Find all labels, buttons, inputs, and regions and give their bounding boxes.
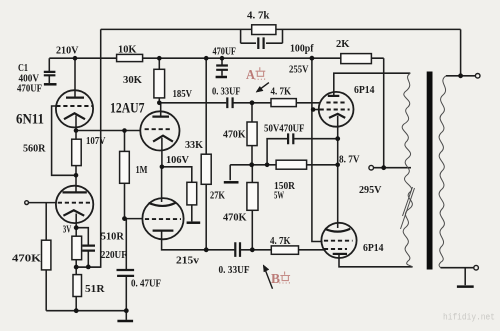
svg-text:A: A [246, 68, 256, 83]
svg-text:100pf: 100pf [290, 44, 314, 55]
svg-text:33K: 33K [185, 140, 204, 151]
svg-text:10K: 10K [118, 45, 137, 56]
svg-text:106V: 106V [166, 155, 189, 166]
svg-text:51R: 51R [85, 284, 105, 295]
svg-text:215v: 215v [176, 256, 200, 267]
svg-text:510R: 510R [101, 231, 124, 242]
svg-text:12AU7: 12AU7 [110, 101, 145, 117]
svg-text:4. 7K: 4. 7K [270, 236, 291, 247]
svg-text:295V: 295V [359, 185, 382, 196]
svg-text:220UF: 220UF [101, 250, 127, 261]
svg-text:0. 33UF: 0. 33UF [212, 87, 241, 98]
svg-text:470K: 470K [223, 212, 247, 223]
svg-text:B: B [271, 272, 280, 287]
svg-text:2K: 2K [336, 39, 350, 50]
svg-text:4. 7k: 4. 7k [247, 10, 270, 21]
svg-text:470UF: 470UF [213, 47, 237, 58]
svg-text:107V: 107V [86, 136, 106, 147]
svg-text:0. 33UF: 0. 33UF [219, 265, 250, 276]
svg-text:0. 47UF: 0. 47UF [131, 279, 161, 290]
svg-text:1M: 1M [136, 165, 148, 176]
svg-text:470UF: 470UF [17, 83, 42, 94]
svg-text:560R: 560R [23, 144, 46, 155]
svg-text:5W: 5W [274, 190, 284, 201]
svg-text:6N11: 6N11 [16, 112, 44, 128]
svg-text:6P14: 6P14 [354, 85, 375, 96]
svg-text:3V: 3V [63, 225, 72, 236]
svg-text:hifidiy.net: hifidiy.net [443, 313, 495, 323]
svg-text:50V470UF: 50V470UF [264, 124, 305, 135]
svg-text:8. 7V: 8. 7V [339, 155, 360, 166]
svg-text:30K: 30K [123, 75, 143, 86]
svg-text:255V: 255V [289, 65, 309, 76]
svg-text:470K: 470K [12, 253, 42, 264]
svg-text:27K: 27K [210, 190, 226, 201]
svg-text:4. 7K: 4. 7K [271, 87, 292, 98]
svg-text:185V: 185V [173, 89, 193, 100]
svg-text:470K: 470K [223, 129, 246, 140]
svg-text:6P14: 6P14 [363, 243, 384, 254]
svg-text:210V: 210V [56, 45, 79, 56]
